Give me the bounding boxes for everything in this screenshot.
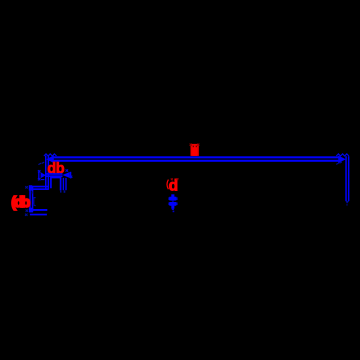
selection ticks below left arrow [38,162,44,164]
selection ticks above right arrow [336,154,349,156]
svg-text:(db: (db [11,195,30,211]
selection ticks above left arrow [44,154,57,156]
transistor M1 left terminal X mark bottom [38,178,44,180]
gate fade tick [60,191,62,193]
transistor M1 right terminal bar [70,172,71,179]
transistor M1 right terminal X mark bottom [70,176,73,178]
net 0 bus wire (horizontal double line) [53,156,339,162]
transistor M1 right terminal X mark top [66,169,69,171]
stub wire right from lower junction (horizontal double line) [30,209,47,215]
right wire bottom tip [345,201,349,204]
X mark left of upper junction [25,186,28,188]
X marks near lower junction [25,210,28,216]
transistor M1 left terminal bar [38,172,39,179]
wire from transistor right terminal down (vertical double line) [63,178,67,190]
transistor M1 channel (double line) [46,173,63,177]
right wire fade tick [64,190,66,192]
wire down to lower junction (vertical double line) [29,186,33,211]
right wire fade dot [346,204,347,206]
wire from bus right end down (vertical double line) [345,156,349,201]
tick marks beside left vertical wire [33,198,35,206]
ground symbol under label d [169,194,178,212]
tick on wire bend [32,191,33,193]
wire end arrow left [46,155,54,163]
transistor M1 left terminal X mark top [38,170,41,172]
junction lower left [29,208,33,213]
transistor M1 left arrow [41,172,46,178]
transistor M1 gate loop [51,178,61,191]
wire turn left below transistor (horizontal double line) [30,186,49,190]
wire end arrow right [338,156,346,164]
transistor M1 right arrow [62,172,69,178]
junction upper left [29,185,32,190]
export label d (center) [167,177,178,194]
export label 0 on bus [190,144,200,156]
selection ticks below right arrow [336,162,342,164]
wire from bus down to transistor (vertical double line) [45,156,49,190]
